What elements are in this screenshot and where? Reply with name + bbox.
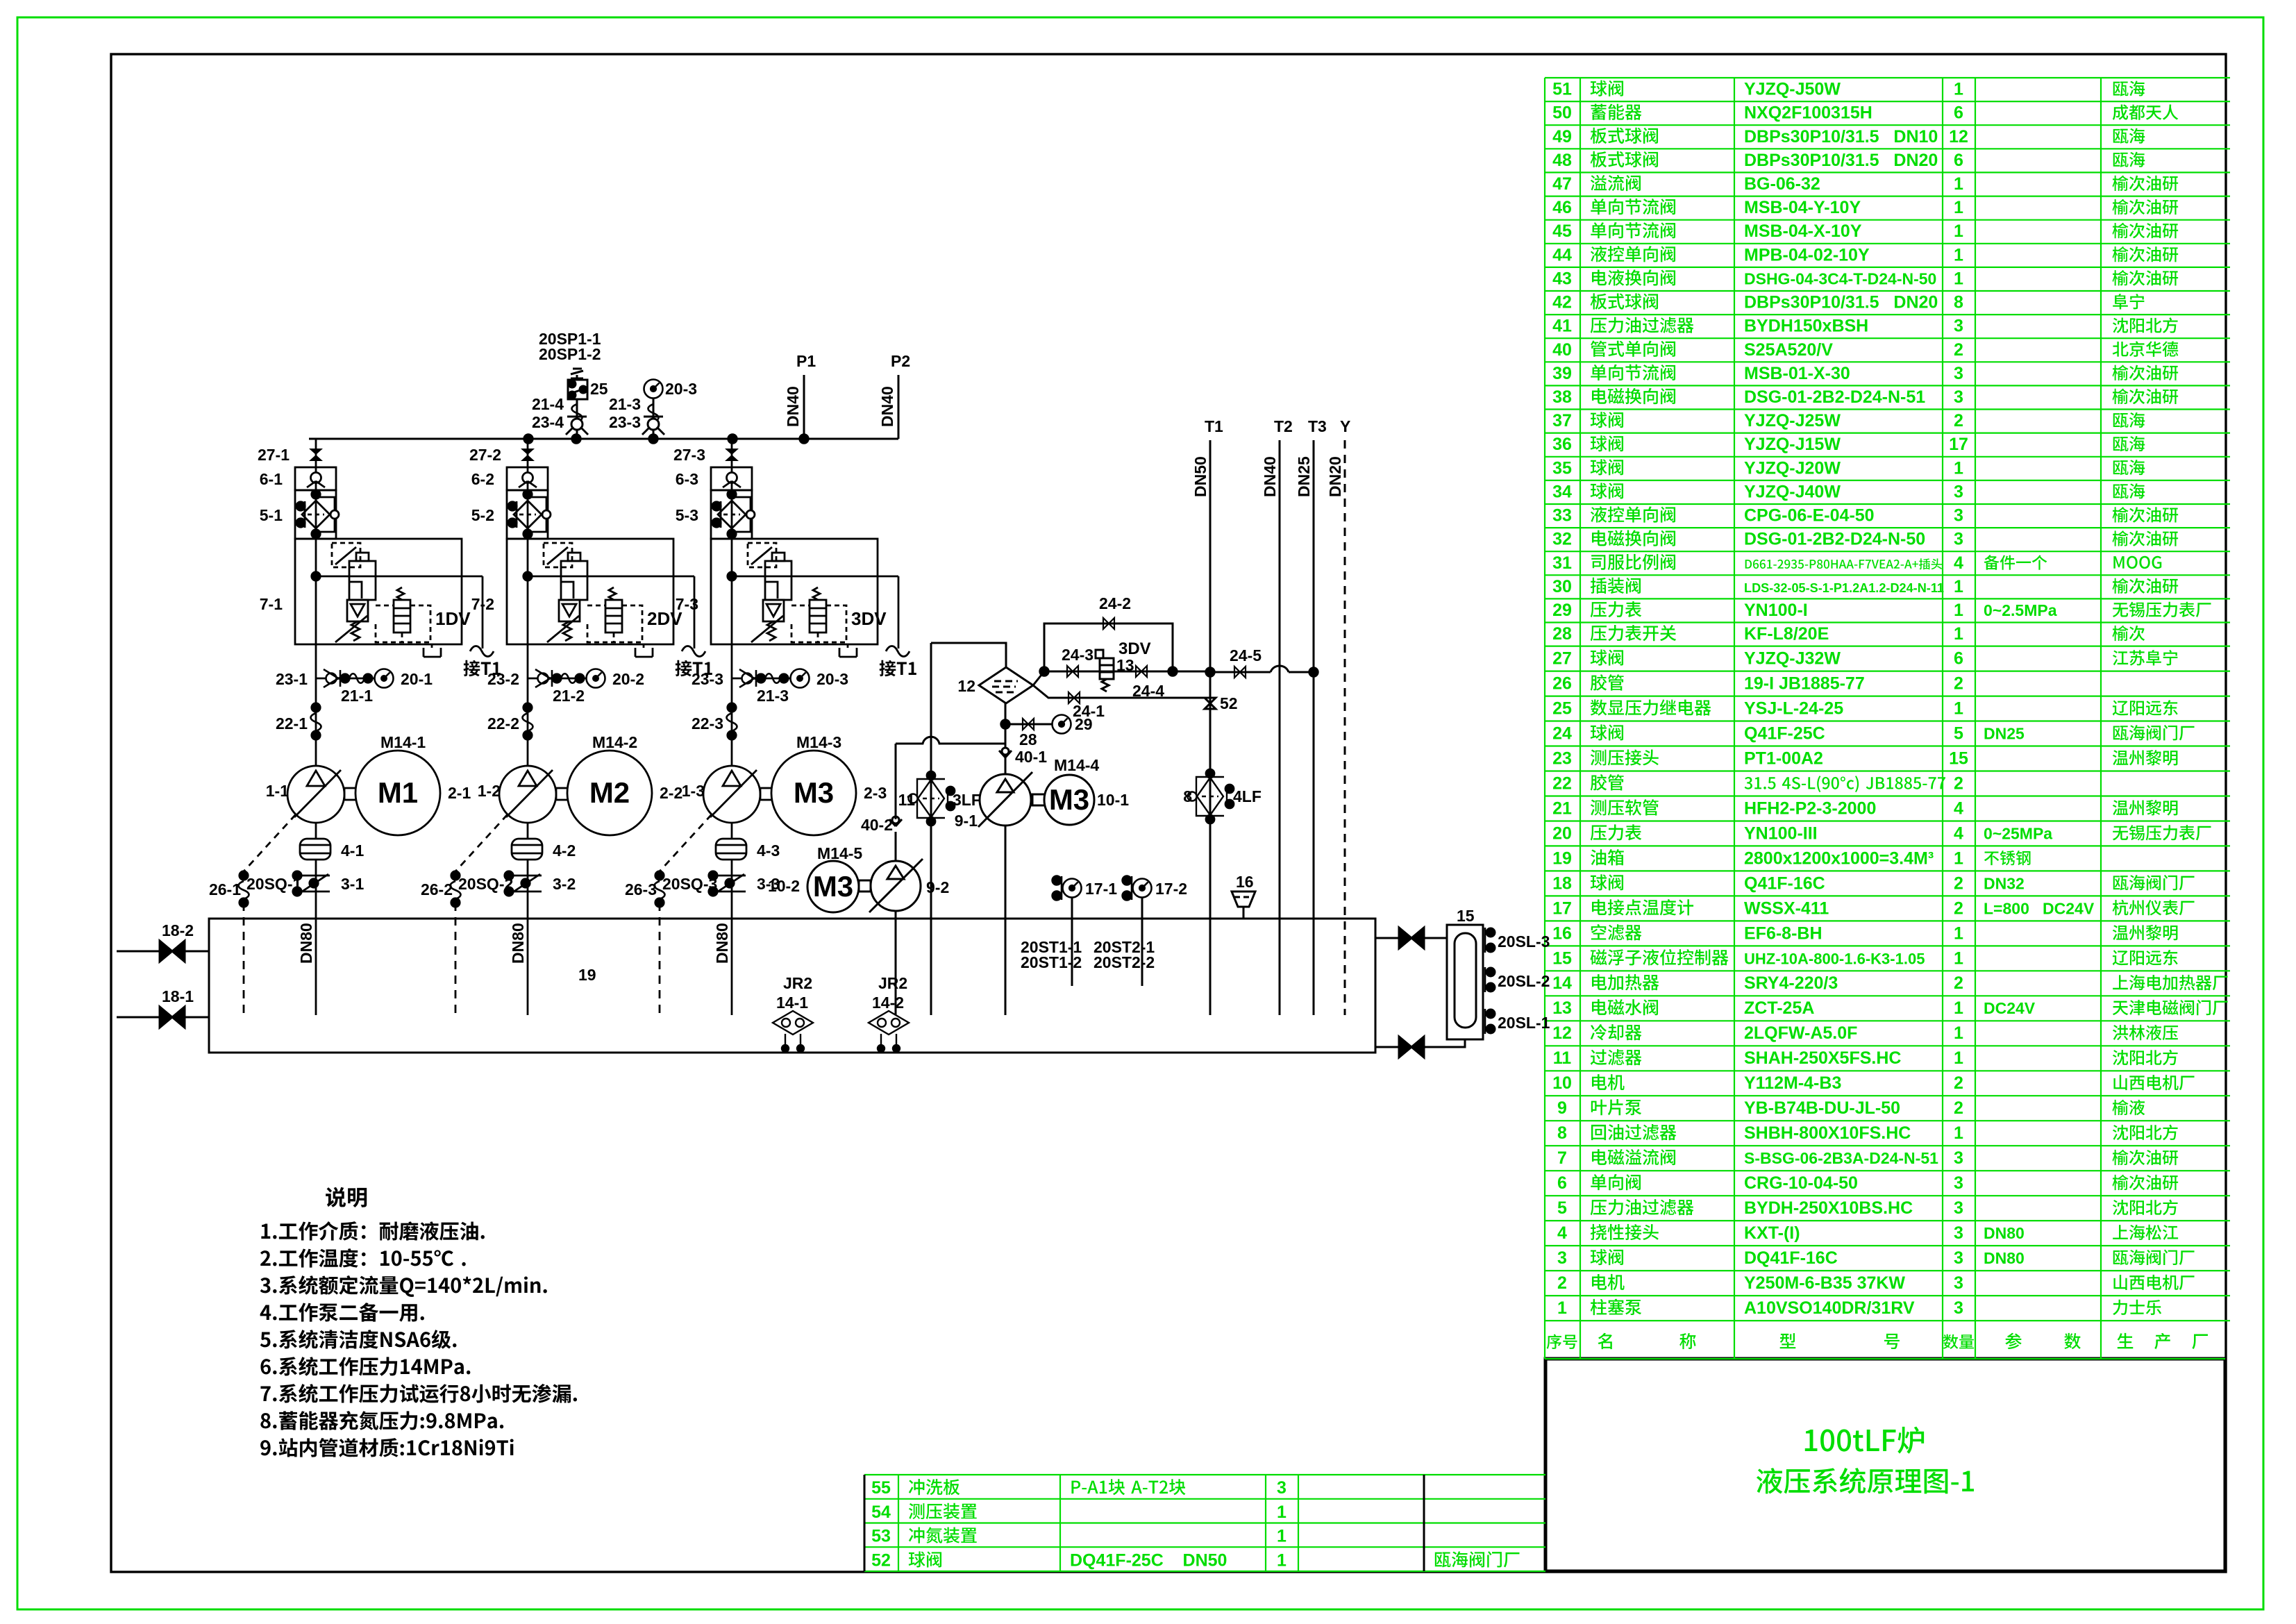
svg-text:0~2.5MPa: 0~2.5MPa xyxy=(1984,601,2057,619)
wire T3 riser DN25 xyxy=(1313,440,1315,1015)
lower supplement table xyxy=(864,1475,1545,1571)
check valve 40-2 xyxy=(889,817,902,826)
wire cooler top return xyxy=(931,643,1006,667)
svg-text:BG-06-32: BG-06-32 xyxy=(1744,174,1820,194)
svg-text:17: 17 xyxy=(1552,898,1572,918)
svg-text:6-2: 6-2 xyxy=(471,470,494,488)
svg-text:NXQ2F100315H: NXQ2F100315H xyxy=(1744,103,1872,123)
svg-text:WSSX-411: WSSX-411 xyxy=(1744,898,1829,918)
svg-text:26: 26 xyxy=(1552,674,1572,694)
wire T2 riser DN40 xyxy=(1279,440,1281,1015)
pressure relay 25 xyxy=(568,380,587,399)
svg-text:M14-4: M14-4 xyxy=(1054,756,1099,774)
svg-text:2: 2 xyxy=(1954,1098,1963,1118)
svg-text:SHBH-800X10FS.HC: SHBH-800X10FS.HC xyxy=(1744,1123,1911,1143)
svg-text:1: 1 xyxy=(1954,577,1963,596)
svg-text:M14-2: M14-2 xyxy=(592,733,637,751)
svg-text:PT1-00A2: PT1-00A2 xyxy=(1744,748,1823,768)
svg-text:2800x1200x1000=3.4M³: 2800x1200x1000=3.4M³ xyxy=(1744,848,1934,868)
svg-text:21: 21 xyxy=(1552,798,1572,818)
svg-text:T3: T3 xyxy=(1308,417,1327,435)
svg-text:M3: M3 xyxy=(1049,783,1089,816)
svg-text:YJZQ-J32W: YJZQ-J32W xyxy=(1744,649,1841,669)
svg-text:16: 16 xyxy=(1552,923,1572,943)
svg-text:55: 55 xyxy=(871,1478,891,1498)
svg-text:3: 3 xyxy=(1954,482,1963,501)
svg-text:28: 28 xyxy=(1019,730,1037,748)
svg-text:46: 46 xyxy=(1552,198,1572,217)
pump group 2 (2DV) xyxy=(451,439,706,1015)
svg-text:27-1: 27-1 xyxy=(258,446,290,464)
svg-text:20-1: 20-1 xyxy=(401,670,433,688)
svg-text:1: 1 xyxy=(1954,174,1963,194)
svg-text:3: 3 xyxy=(1954,387,1963,407)
svg-text:20: 20 xyxy=(1552,823,1572,843)
svg-text:2: 2 xyxy=(1954,973,1963,993)
svg-text:3: 3 xyxy=(1954,1173,1963,1193)
svg-text:20SL-1: 20SL-1 xyxy=(1498,1014,1550,1032)
svg-text:24-5: 24-5 xyxy=(1230,646,1262,664)
svg-text:18-1: 18-1 xyxy=(162,987,194,1005)
svg-text:DN32: DN32 xyxy=(1984,874,2025,892)
svg-text:3: 3 xyxy=(1954,1248,1963,1268)
svg-text:28: 28 xyxy=(1552,624,1572,644)
wire pump 9-1 suction xyxy=(1005,826,1007,1015)
motor M14-5 xyxy=(807,861,859,912)
svg-text:9: 9 xyxy=(1557,1098,1567,1118)
svg-text:3DV: 3DV xyxy=(851,608,887,629)
svg-text:31: 31 xyxy=(1552,553,1572,573)
svg-text:YSJ-L-24-25: YSJ-L-24-25 xyxy=(1744,699,1843,719)
valve 24-5 xyxy=(1234,667,1246,678)
svg-text:23: 23 xyxy=(1552,748,1572,768)
svg-text:30: 30 xyxy=(1552,577,1572,596)
svg-text:17-1: 17-1 xyxy=(1085,880,1117,898)
svg-text:DN25: DN25 xyxy=(1295,456,1313,497)
svg-text:1: 1 xyxy=(1954,1023,1963,1043)
svg-text:3: 3 xyxy=(1954,506,1963,526)
pump group 3 (3DV) xyxy=(655,439,910,1015)
svg-text:23-4: 23-4 xyxy=(532,413,564,431)
svg-text:3: 3 xyxy=(1954,530,1963,549)
svg-text:YN100-I: YN100-I xyxy=(1744,601,1808,620)
svg-text:47: 47 xyxy=(1552,174,1572,194)
svg-text:18-2: 18-2 xyxy=(162,921,194,939)
valve 24-4 xyxy=(1136,666,1147,677)
valve tank-gauge lower xyxy=(1399,1037,1424,1057)
svg-text:17: 17 xyxy=(1949,435,1968,454)
svg-text:S25A520/V: S25A520/V xyxy=(1744,340,1833,360)
motor M14-4 xyxy=(1044,775,1094,825)
svg-text:YJZQ-J20W: YJZQ-J20W xyxy=(1744,458,1841,478)
svg-text:3: 3 xyxy=(1954,1273,1963,1293)
svg-text:11: 11 xyxy=(1553,1048,1572,1068)
svg-text:S-BSG-06-2B3A-D24-N-51: S-BSG-06-2B3A-D24-N-51 xyxy=(1744,1149,1938,1167)
svg-text:53: 53 xyxy=(871,1527,891,1546)
filter 11 3LF xyxy=(909,771,955,826)
svg-text:6: 6 xyxy=(1954,103,1963,123)
valve 52 xyxy=(1205,698,1216,709)
hose 21-3 top xyxy=(648,404,659,422)
svg-text:29: 29 xyxy=(1075,715,1093,733)
svg-text:24-4: 24-4 xyxy=(1132,682,1164,700)
svg-text:37: 37 xyxy=(1552,411,1572,430)
svg-text:25: 25 xyxy=(590,380,608,398)
svg-text:1: 1 xyxy=(1954,624,1963,644)
svg-text:1-3: 1-3 xyxy=(682,782,705,800)
svg-text:5-2: 5-2 xyxy=(471,506,494,524)
svg-text:21-4: 21-4 xyxy=(532,395,564,413)
svg-text:4: 4 xyxy=(1954,553,1963,573)
svg-text:YJZQ-J25W: YJZQ-J25W xyxy=(1744,411,1841,430)
svg-text:8: 8 xyxy=(1954,293,1963,312)
svg-text:1: 1 xyxy=(1954,998,1963,1018)
table header row xyxy=(1547,1334,1577,1349)
wire cooler bottom to pump 9-1 xyxy=(1005,703,1007,775)
svg-text:19-I JB1885-77: 19-I JB1885-77 xyxy=(1744,674,1865,694)
svg-text:41: 41 xyxy=(1552,317,1572,336)
svg-text:21-1: 21-1 xyxy=(341,687,373,705)
svg-text:7-2: 7-2 xyxy=(471,595,494,613)
svg-text:22-1: 22-1 xyxy=(276,714,308,733)
svg-text:20SQ-3: 20SQ-3 xyxy=(662,875,717,893)
wire pump 9-2 suction xyxy=(895,911,897,1015)
svg-text:1: 1 xyxy=(1954,948,1963,968)
svg-text:7-3: 7-3 xyxy=(676,595,698,613)
svg-text:20SL-2: 20SL-2 xyxy=(1498,972,1550,990)
svg-text:40-2: 40-2 xyxy=(861,816,893,834)
svg-text:20SL-3: 20SL-3 xyxy=(1498,932,1550,951)
svg-text:HFH2-P2-3-2000: HFH2-P2-3-2000 xyxy=(1744,798,1876,818)
svg-text:38: 38 xyxy=(1552,387,1572,407)
svg-text:DN80: DN80 xyxy=(713,923,731,964)
svg-text:4: 4 xyxy=(1954,823,1963,843)
vane pump 9-2 xyxy=(871,861,921,911)
svg-text:DN80: DN80 xyxy=(1984,1249,2025,1267)
svg-text:DN25: DN25 xyxy=(1984,724,2025,742)
svg-text:2: 2 xyxy=(1954,773,1963,793)
svg-text:MSB-04-X-10Y: MSB-04-X-10Y xyxy=(1744,221,1862,241)
svg-text:YB-B74B-DU-JL-50: YB-B74B-DU-JL-50 xyxy=(1744,1098,1900,1118)
svg-text:2LQFW-A5.0F: 2LQFW-A5.0F xyxy=(1744,1023,1857,1043)
svg-text:KF-L8/20E: KF-L8/20E xyxy=(1744,624,1829,644)
svg-text:14: 14 xyxy=(1552,973,1572,993)
svg-text:12: 12 xyxy=(957,677,975,695)
svg-text:29: 29 xyxy=(1552,601,1572,620)
svg-text:DN40: DN40 xyxy=(1261,456,1279,497)
svg-text:42: 42 xyxy=(1552,293,1572,312)
svg-text:MSB-04-Y-10Y: MSB-04-Y-10Y xyxy=(1744,198,1861,217)
svg-text:13: 13 xyxy=(1116,656,1134,674)
valve 18-2 xyxy=(117,951,209,953)
svg-text:8: 8 xyxy=(1183,787,1192,805)
heater 14-1 JR2 xyxy=(773,1011,813,1052)
svg-text:UHZ-10A-800-1.6-K3-1.05: UHZ-10A-800-1.6-K3-1.05 xyxy=(1744,950,1925,967)
svg-text:19: 19 xyxy=(1552,848,1572,868)
svg-text:1: 1 xyxy=(1954,458,1963,478)
svg-text:Q41F-25C: Q41F-25C xyxy=(1744,723,1825,743)
svg-text:40: 40 xyxy=(1552,340,1572,360)
svg-text:23-2: 23-2 xyxy=(487,670,519,688)
svg-text:23-3: 23-3 xyxy=(609,413,641,431)
svg-text:45: 45 xyxy=(1552,221,1572,241)
solenoid water valve 13 3DV xyxy=(1096,650,1114,692)
svg-text:1: 1 xyxy=(1954,198,1963,217)
svg-text:4LF: 4LF xyxy=(1233,787,1262,805)
svg-text:YJZQ-J40W: YJZQ-J40W xyxy=(1744,482,1841,501)
svg-text:12: 12 xyxy=(1949,127,1968,147)
svg-text:1: 1 xyxy=(1954,80,1963,99)
svg-text:CRG-10-04-50: CRG-10-04-50 xyxy=(1744,1173,1858,1193)
svg-text:SHAH-250X5FS.HC: SHAH-250X5FS.HC xyxy=(1744,1048,1901,1068)
svg-text:DN80: DN80 xyxy=(1984,1224,2025,1242)
svg-text:YJZQ-J50W: YJZQ-J50W xyxy=(1744,80,1841,99)
svg-text:DN40: DN40 xyxy=(878,386,896,427)
svg-text:T2: T2 xyxy=(1274,417,1293,435)
svg-text:50: 50 xyxy=(1552,103,1572,123)
svg-text:1: 1 xyxy=(1954,1048,1963,1068)
svg-text:21-2: 21-2 xyxy=(553,687,585,705)
svg-text:1: 1 xyxy=(1954,848,1963,868)
svg-text:DSG-01-2B2-D24-N-50: DSG-01-2B2-D24-N-50 xyxy=(1744,530,1925,549)
cooler 12 xyxy=(979,667,1033,703)
svg-text:13: 13 xyxy=(1552,998,1572,1018)
svg-text:6-3: 6-3 xyxy=(676,470,698,488)
svg-text:4-2: 4-2 xyxy=(553,842,576,860)
svg-text:3DV: 3DV xyxy=(1118,639,1151,658)
svg-text:12: 12 xyxy=(1552,1023,1572,1043)
svg-text:52: 52 xyxy=(1220,694,1238,712)
svg-text:M14-5: M14-5 xyxy=(817,844,862,862)
wire 24-5 link xyxy=(1210,671,1271,673)
svg-text:22-2: 22-2 xyxy=(487,714,519,733)
svg-text:1: 1 xyxy=(1954,221,1963,241)
wire return drop to filter 11 xyxy=(930,643,932,1015)
svg-text:6: 6 xyxy=(1954,649,1963,669)
tank 19 xyxy=(209,919,1375,1053)
svg-text:1: 1 xyxy=(1954,923,1963,943)
test point 23-4 xyxy=(566,417,588,435)
svg-text:7: 7 xyxy=(1557,1148,1567,1168)
heater 14-2 JR2 xyxy=(869,1011,909,1052)
svg-text:8: 8 xyxy=(1557,1123,1567,1143)
parts list table grid xyxy=(1545,78,2230,1359)
svg-text:52: 52 xyxy=(871,1550,891,1570)
svg-text:24: 24 xyxy=(1552,723,1572,743)
svg-text:5-3: 5-3 xyxy=(676,506,698,524)
svg-text:Y112M-4-B3: Y112M-4-B3 xyxy=(1744,1073,1841,1093)
valve 28 xyxy=(1023,719,1034,730)
svg-text:15: 15 xyxy=(1457,907,1475,925)
svg-text:36: 36 xyxy=(1552,435,1572,454)
svg-text:1: 1 xyxy=(1954,601,1963,620)
svg-text:14-2: 14-2 xyxy=(872,994,904,1012)
svg-text:27-2: 27-2 xyxy=(469,446,501,464)
svg-text:3: 3 xyxy=(1954,1148,1963,1168)
svg-text:SRY4-220/3: SRY4-220/3 xyxy=(1744,973,1838,993)
svg-text:44: 44 xyxy=(1552,245,1572,265)
svg-text:3: 3 xyxy=(1954,364,1963,383)
svg-text:27-3: 27-3 xyxy=(673,446,705,464)
svg-text:18: 18 xyxy=(1552,873,1572,893)
wire Y riser DN20 dashed xyxy=(1344,440,1346,1015)
svg-text:17-2: 17-2 xyxy=(1155,880,1187,898)
svg-text:M14-3: M14-3 xyxy=(796,733,841,751)
svg-text:DBPs30P10/31.5 DN10: DBPs30P10/31.5 DN10 xyxy=(1744,127,1938,147)
svg-text:1: 1 xyxy=(1277,1502,1287,1522)
valve 18-1 xyxy=(117,1016,209,1019)
svg-text:EF6-8-BH: EF6-8-BH xyxy=(1744,923,1822,943)
svg-text:DC24V: DC24V xyxy=(1984,999,2036,1017)
svg-text:DSG-01-2B2-D24-N-51: DSG-01-2B2-D24-N-51 xyxy=(1744,387,1925,407)
svg-text:21-3: 21-3 xyxy=(609,395,641,413)
svg-text:4: 4 xyxy=(1557,1223,1567,1243)
svg-text:51: 51 xyxy=(1552,80,1572,99)
svg-text:27: 27 xyxy=(1552,649,1572,669)
svg-text:3-1: 3-1 xyxy=(341,875,364,893)
svg-text:DN20: DN20 xyxy=(1326,456,1344,497)
svg-text:2: 2 xyxy=(1954,873,1963,893)
wire gauge 29 branch xyxy=(1005,723,1053,726)
svg-text:Y: Y xyxy=(1340,417,1350,435)
wire bypass 24-3 / 13 / 24-4 xyxy=(1033,671,1044,685)
node bus junctions xyxy=(524,435,533,443)
air filter 16 xyxy=(1232,891,1255,907)
svg-text:34: 34 xyxy=(1552,482,1572,501)
svg-text:DN40: DN40 xyxy=(784,386,802,427)
svg-text:35: 35 xyxy=(1552,458,1572,478)
valve tank-gauge upper xyxy=(1399,928,1424,948)
svg-text:43: 43 xyxy=(1552,269,1572,288)
svg-text:48: 48 xyxy=(1552,151,1572,170)
vane pump 9-1 xyxy=(980,774,1031,826)
test point 23-3 top xyxy=(642,417,664,435)
svg-text:5: 5 xyxy=(1954,723,1963,743)
svg-text:0~25MPa: 0~25MPa xyxy=(1984,824,2052,842)
coupling 9-1/M14-4 xyxy=(1032,794,1045,805)
svg-text:20ST2-2: 20ST2-2 xyxy=(1093,953,1155,971)
svg-text:20SQ-2: 20SQ-2 xyxy=(458,875,513,893)
svg-text:1DV: 1DV xyxy=(435,608,471,629)
svg-text:32: 32 xyxy=(1552,530,1572,549)
svg-text:BYDH-250X10BS.HC: BYDH-250X10BS.HC xyxy=(1744,1198,1913,1218)
svg-text:26-1: 26-1 xyxy=(209,880,241,898)
svg-text:20ST1-2: 20ST1-2 xyxy=(1021,953,1082,971)
svg-text:JR2: JR2 xyxy=(783,974,812,992)
svg-text:6-1: 6-1 xyxy=(260,470,283,488)
check valve 40-1 xyxy=(999,748,1012,757)
svg-text:19: 19 xyxy=(578,966,596,984)
svg-text:2: 2 xyxy=(1954,340,1963,360)
svg-text:M2: M2 xyxy=(589,776,630,809)
svg-text:10-2: 10-2 xyxy=(768,877,800,895)
coupling M14-5/9-2 xyxy=(859,880,871,891)
thermometer 17-1 xyxy=(1053,876,1082,900)
svg-text:DN50: DN50 xyxy=(1191,456,1209,497)
svg-text:54: 54 xyxy=(871,1502,891,1522)
svg-text:9-1: 9-1 xyxy=(955,812,978,830)
svg-text:1-2: 1-2 xyxy=(478,782,501,800)
svg-text:M3: M3 xyxy=(794,776,834,809)
svg-text:2: 2 xyxy=(1954,411,1963,430)
gauge 29 xyxy=(1053,715,1071,734)
svg-text:CPG-06-E-04-50: CPG-06-E-04-50 xyxy=(1744,506,1875,526)
svg-text:M3: M3 xyxy=(813,870,853,903)
svg-text:11: 11 xyxy=(898,791,916,809)
svg-text:33: 33 xyxy=(1552,506,1572,526)
svg-text:23-1: 23-1 xyxy=(276,670,308,688)
svg-text:2-3: 2-3 xyxy=(864,784,887,802)
hose 21-4 xyxy=(572,404,583,422)
svg-text:20SQ-1: 20SQ-1 xyxy=(246,875,301,893)
svg-text:16: 16 xyxy=(1236,873,1254,891)
valve 24-3 xyxy=(1067,666,1078,677)
svg-text:20-3: 20-3 xyxy=(816,670,848,688)
notes 说明 xyxy=(326,1187,367,1207)
svg-text:24-2: 24-2 xyxy=(1099,594,1131,612)
svg-text:T1: T1 xyxy=(1205,417,1223,435)
svg-text:BYDH150xBSH: BYDH150xBSH xyxy=(1744,317,1868,336)
svg-text:25: 25 xyxy=(1552,699,1572,719)
svg-text:A10VSO140DR/31RV: A10VSO140DR/31RV xyxy=(1744,1298,1915,1318)
filter 8 4LF xyxy=(1188,769,1234,823)
wire top pressure bus xyxy=(309,438,898,440)
svg-text:1: 1 xyxy=(1277,1527,1287,1546)
svg-text:3: 3 xyxy=(1557,1248,1567,1268)
svg-text:20-2: 20-2 xyxy=(612,670,644,688)
svg-text:3: 3 xyxy=(1277,1478,1287,1498)
svg-text:2: 2 xyxy=(1557,1273,1567,1293)
svg-text:1: 1 xyxy=(1277,1550,1287,1570)
svg-text:3LF: 3LF xyxy=(953,791,981,809)
svg-text:26-3: 26-3 xyxy=(625,880,657,898)
svg-text:Y250M-6-B35 37KW: Y250M-6-B35 37KW xyxy=(1744,1273,1905,1293)
svg-text:DQ41F-25C DN50: DQ41F-25C DN50 xyxy=(1070,1550,1227,1570)
svg-text:1: 1 xyxy=(1954,1123,1963,1143)
svg-text:1: 1 xyxy=(1557,1298,1567,1318)
valve 24-1 xyxy=(1069,692,1080,703)
svg-text:4-1: 4-1 xyxy=(341,842,364,860)
svg-text:P1: P1 xyxy=(796,352,816,370)
svg-text:Q41F-16C: Q41F-16C xyxy=(1744,873,1825,893)
svg-text:20SP1-2: 20SP1-2 xyxy=(539,345,601,363)
pump group 1 (1DV) xyxy=(239,439,494,1015)
wire gauge bottom return xyxy=(1375,1039,1465,1047)
svg-text:DN80: DN80 xyxy=(509,923,527,964)
title block box xyxy=(1545,1359,2225,1571)
gauge 20-3 top xyxy=(644,380,663,399)
svg-text:1: 1 xyxy=(1954,699,1963,719)
svg-text:2-1: 2-1 xyxy=(448,784,471,802)
svg-text:4: 4 xyxy=(1954,798,1963,818)
wire 24-1 line to T1 xyxy=(1033,685,1210,698)
svg-text:20-3: 20-3 xyxy=(665,380,697,398)
svg-text:15: 15 xyxy=(1949,748,1968,768)
svg-text:5: 5 xyxy=(1557,1198,1567,1218)
svg-text:L=800 DC24V: L=800 DC24V xyxy=(1984,899,2095,917)
svg-text:YJZQ-J15W: YJZQ-J15W xyxy=(1744,435,1841,454)
svg-text:2: 2 xyxy=(1954,674,1963,694)
svg-text:P2: P2 xyxy=(891,352,910,370)
svg-text:3: 3 xyxy=(1954,1223,1963,1243)
svg-text:10: 10 xyxy=(1552,1073,1572,1093)
wire tank to level gauge top xyxy=(1375,937,1447,939)
svg-text:10-1: 10-1 xyxy=(1097,791,1129,809)
svg-text:14-1: 14-1 xyxy=(776,994,808,1012)
wire bypass upper 24-2 xyxy=(1044,623,1173,671)
svg-text:M1: M1 xyxy=(378,776,418,809)
svg-text:3: 3 xyxy=(1954,1198,1963,1218)
